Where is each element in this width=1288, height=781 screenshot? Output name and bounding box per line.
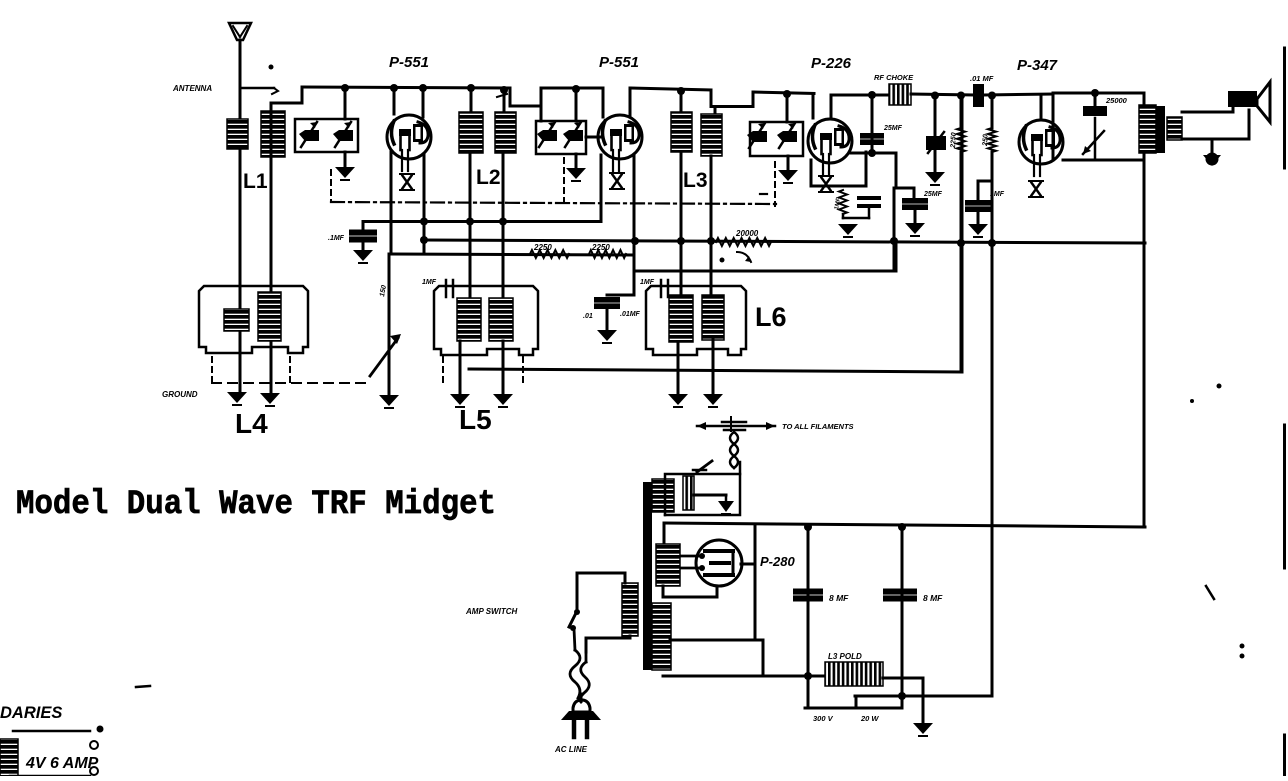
svg-text:250: 250 <box>982 134 990 147</box>
svg-text:2250: 2250 <box>533 243 552 252</box>
svg-text:L3 POLD: L3 POLD <box>828 652 862 661</box>
svg-text:P-551: P-551 <box>599 54 639 71</box>
svg-text:.1MF: .1MF <box>328 235 345 242</box>
svg-text:1MF: 1MF <box>422 279 437 286</box>
svg-text:GROUND: GROUND <box>162 390 198 399</box>
svg-text:25MF: 25MF <box>883 125 903 132</box>
svg-text:.01 MF: .01 MF <box>970 74 994 83</box>
svg-text:2250: 2250 <box>591 243 610 252</box>
svg-text:L1: L1 <box>243 170 268 193</box>
svg-text:L4: L4 <box>235 408 268 439</box>
svg-text:ANTENNA: ANTENNA <box>172 84 212 93</box>
svg-text:8 MF: 8 MF <box>923 593 943 603</box>
svg-text:P-551: P-551 <box>389 54 429 71</box>
svg-text:1MF: 1MF <box>640 279 655 286</box>
svg-text:RF CHOKE: RF CHOKE <box>874 73 914 82</box>
svg-text:.01: .01 <box>583 313 593 320</box>
svg-text:20000: 20000 <box>735 229 759 238</box>
svg-text:AC LINE: AC LINE <box>554 745 588 754</box>
svg-text:P-280: P-280 <box>760 554 795 569</box>
svg-text:4V 6 AMP: 4V 6 AMP <box>25 755 99 772</box>
svg-text:20 W: 20 W <box>860 714 879 723</box>
svg-text:Model Dual Wave TRF Midget: Model Dual Wave TRF Midget <box>16 485 496 524</box>
svg-text:P-226: P-226 <box>811 55 852 72</box>
svg-text:8 MF: 8 MF <box>829 593 849 603</box>
svg-text:L3: L3 <box>683 169 708 192</box>
svg-text:25000: 25000 <box>1105 96 1128 105</box>
svg-text:25MF: 25MF <box>923 191 943 198</box>
svg-text:L2: L2 <box>476 166 501 189</box>
svg-text:2250: 2250 <box>950 132 958 149</box>
svg-text:TO ALL FILAMENTS: TO ALL FILAMENTS <box>782 422 854 431</box>
svg-text:L6: L6 <box>755 302 787 332</box>
svg-text:300 V: 300 V <box>813 714 834 723</box>
svg-text:.01MF: .01MF <box>620 311 641 318</box>
svg-text:L5: L5 <box>459 404 492 435</box>
svg-text:1MF: 1MF <box>990 191 1005 198</box>
svg-text:AMP SWITCH: AMP SWITCH <box>465 607 517 616</box>
svg-text:P-347: P-347 <box>1017 57 1058 74</box>
svg-text:DARIES: DARIES <box>0 704 62 722</box>
